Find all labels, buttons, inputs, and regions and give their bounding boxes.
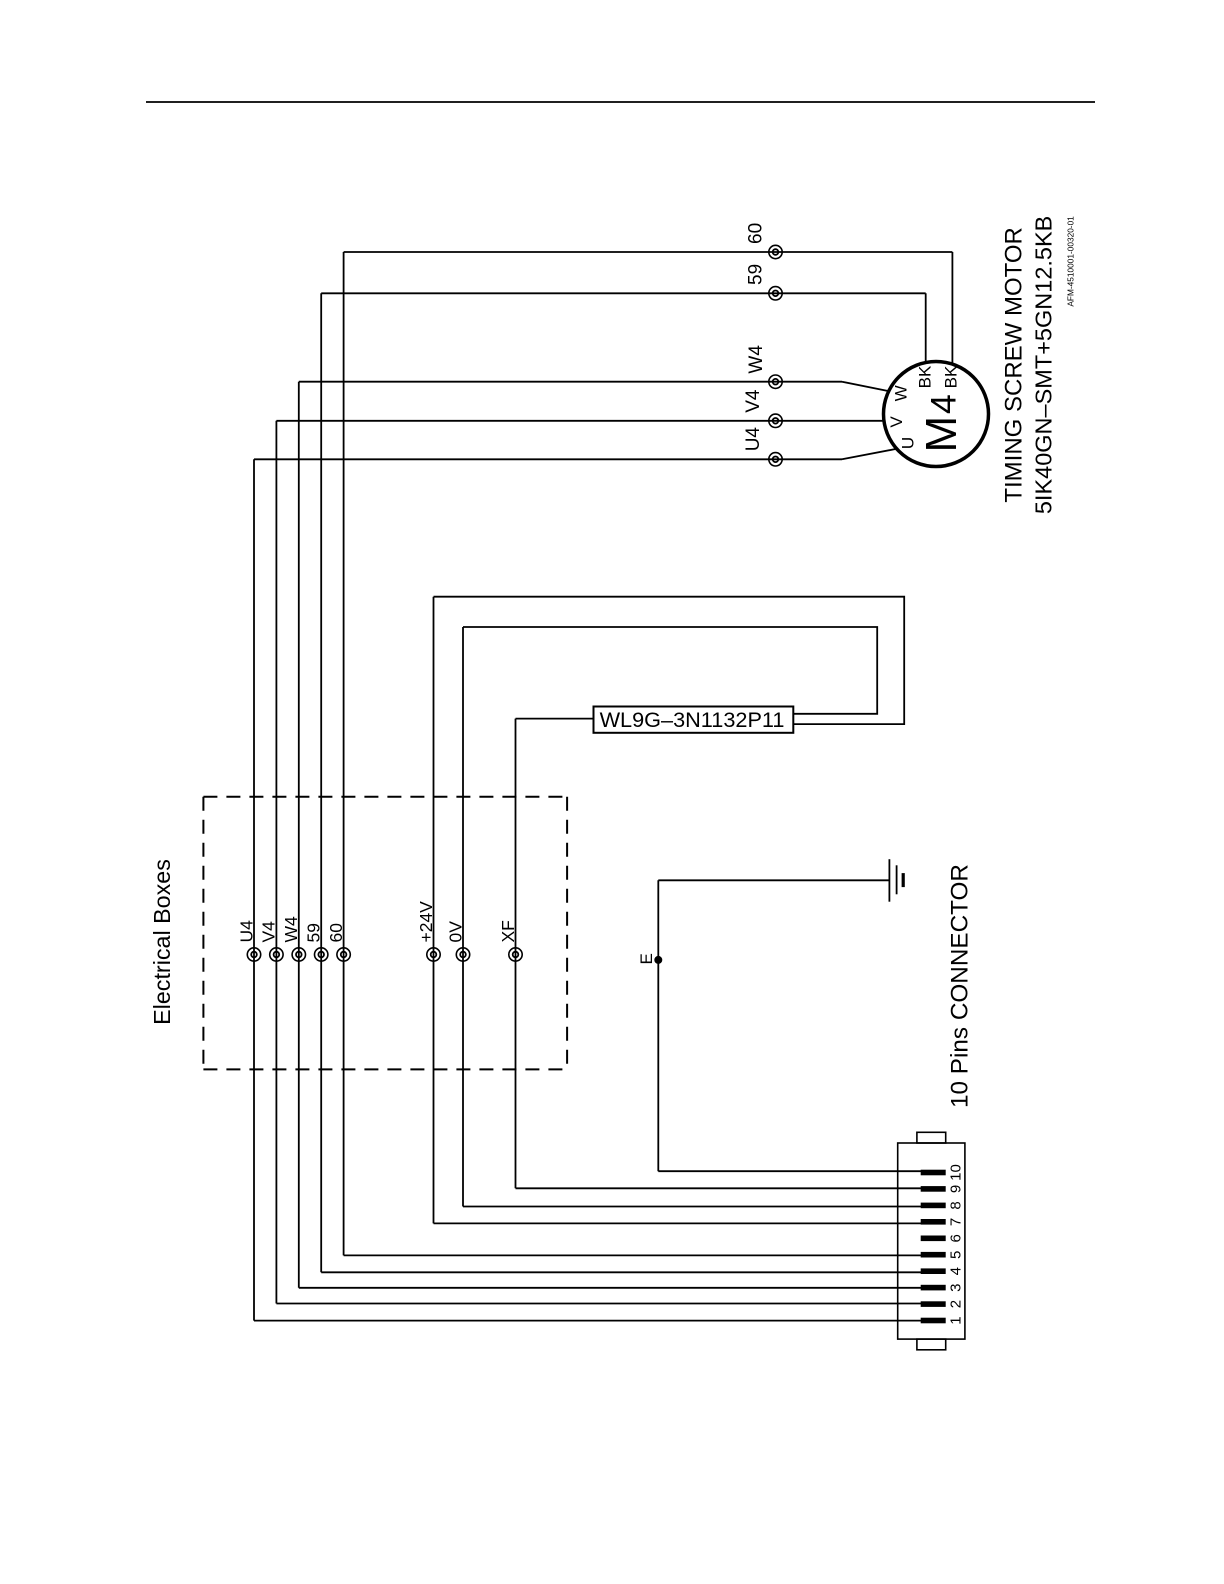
- svg-text:U4: U4: [236, 920, 256, 943]
- connector J1 bottom tab: [917, 1339, 946, 1350]
- svg-text:Electrical Boxes: Electrical Boxes: [149, 859, 175, 1025]
- svg-text:59: 59: [746, 264, 767, 285]
- wire 0V to pin 8: [463, 1206, 921, 1208]
- svg-text:TIMING SCREW MOTOR: TIMING SCREW MOTOR: [1001, 227, 1028, 503]
- svg-text:E: E: [637, 953, 656, 964]
- svg-text:59: 59: [304, 923, 324, 942]
- pin 8: [921, 1203, 946, 1209]
- svg-text:4: 4: [948, 1267, 965, 1275]
- svg-text:XF: XF: [498, 920, 518, 942]
- wire W4 motor lead: [842, 382, 889, 391]
- svg-text:V: V: [887, 416, 906, 428]
- svg-text:BK: BK: [916, 365, 935, 388]
- wire V4 to pin 2: [276, 1303, 921, 1305]
- pin 3: [921, 1285, 946, 1291]
- svg-text:W4: W4: [281, 916, 301, 943]
- svg-text:BK: BK: [942, 365, 961, 388]
- svg-text:60: 60: [326, 923, 346, 943]
- wire 59 to pin 4: [321, 1271, 921, 1273]
- terminal +24V (Electrical Boxes): [427, 948, 440, 961]
- wire XF to pin 9: [516, 1187, 922, 1189]
- svg-text:+24V: +24V: [416, 901, 436, 943]
- svg-text:9: 9: [948, 1185, 965, 1193]
- terminal W4 (Electrical Boxes): [292, 948, 305, 961]
- svg-text:3: 3: [948, 1284, 965, 1292]
- connector J1 top tab: [917, 1132, 946, 1143]
- wire 60 to pin 5: [344, 1254, 921, 1256]
- connector ring 59: [769, 287, 782, 300]
- terminal 60 (Electrical Boxes): [337, 948, 350, 961]
- wire U4 vertical run: [253, 459, 255, 1320]
- wire U4 to pin 1: [254, 1320, 921, 1322]
- wire W4 to pin 3: [299, 1287, 921, 1289]
- svg-text:2: 2: [948, 1300, 965, 1308]
- svg-text:V4: V4: [743, 389, 764, 413]
- svg-text:U4: U4: [743, 427, 764, 452]
- svg-text:WL9G–3N1132P11: WL9G–3N1132P11: [600, 707, 785, 732]
- node E: [654, 956, 662, 964]
- wire 0V vertical run: [462, 627, 464, 1207]
- connector ring V4: [769, 414, 782, 427]
- wire U4 horizontal (motor side): [254, 458, 842, 460]
- connector ring U4: [769, 453, 782, 466]
- pin 1: [921, 1318, 946, 1324]
- wire W4 vertical run: [298, 382, 300, 1288]
- connector J1 body (10 pins): [898, 1143, 965, 1339]
- svg-text:W4: W4: [746, 345, 767, 374]
- top rule: [146, 101, 1095, 103]
- svg-text:AFM-4510001-00320-01: AFM-4510001-00320-01: [1066, 216, 1076, 307]
- svg-text:M: M: [917, 416, 966, 453]
- wire +24V vertical run: [433, 597, 435, 1224]
- dashed enclosure Electrical Boxes: [203, 797, 567, 1070]
- wire XF vertical run: [515, 719, 517, 1189]
- wire +24V to pin 7: [434, 1222, 922, 1224]
- connector ring 60: [769, 245, 782, 258]
- terminal U4 (Electrical Boxes): [247, 948, 260, 961]
- svg-text:7: 7: [948, 1218, 965, 1226]
- wire E to pin 10: [658, 1170, 921, 1172]
- wire +24V from WL9G block: [434, 597, 905, 724]
- svg-text:8: 8: [948, 1201, 965, 1209]
- svg-text:0V: 0V: [445, 921, 465, 943]
- wire 59 vertical run: [320, 293, 322, 1272]
- wire 59 horizontal: [321, 292, 926, 294]
- svg-text:5: 5: [948, 1251, 965, 1259]
- block WL9G-3N1132P11: [594, 707, 794, 733]
- wire 60 vertical run: [343, 252, 345, 1255]
- terminal 59 (Electrical Boxes): [315, 948, 328, 961]
- svg-text:W: W: [892, 385, 911, 401]
- terminal XF (Electrical Boxes): [509, 948, 522, 961]
- wire 59 motor drop: [925, 293, 927, 362]
- pin 4: [921, 1268, 946, 1274]
- wire U4 motor lead: [842, 449, 897, 460]
- svg-text:V4: V4: [259, 921, 279, 943]
- wire 60 motor drop: [951, 252, 953, 364]
- svg-text:1: 1: [948, 1316, 965, 1324]
- pin 6: [921, 1236, 946, 1242]
- svg-text:6: 6: [948, 1234, 965, 1242]
- pin 10: [921, 1170, 946, 1176]
- pin 9: [921, 1186, 946, 1192]
- svg-text:10 Pins CONNECTOR: 10 Pins CONNECTOR: [947, 864, 974, 1108]
- svg-text:60: 60: [746, 223, 767, 244]
- pin 7: [921, 1219, 946, 1225]
- wire E to ground: [658, 879, 889, 881]
- svg-text:5IK40GN–SMT+5GN12.5KB: 5IK40GN–SMT+5GN12.5KB: [1031, 216, 1057, 514]
- wire V4 horizontal (motor side): [276, 420, 884, 422]
- wire XF from WL9G block: [516, 718, 594, 720]
- svg-text:U: U: [899, 437, 918, 449]
- wire 0V from WL9G block: [463, 627, 877, 714]
- connector ring W4: [769, 375, 782, 388]
- wire W4 horizontal (motor side): [299, 381, 842, 383]
- svg-text:4: 4: [924, 394, 964, 414]
- terminal V4 (Electrical Boxes): [270, 948, 283, 961]
- svg-text:10: 10: [948, 1164, 965, 1181]
- ground: [889, 859, 903, 902]
- terminal 0V (Electrical Boxes): [456, 948, 469, 961]
- pin 2: [921, 1301, 946, 1307]
- wire V4 vertical run: [275, 421, 277, 1304]
- motor M4: [884, 362, 989, 467]
- pin 5: [921, 1252, 946, 1258]
- wire 60 horizontal: [344, 251, 953, 253]
- wire E vertical run: [657, 880, 659, 1171]
